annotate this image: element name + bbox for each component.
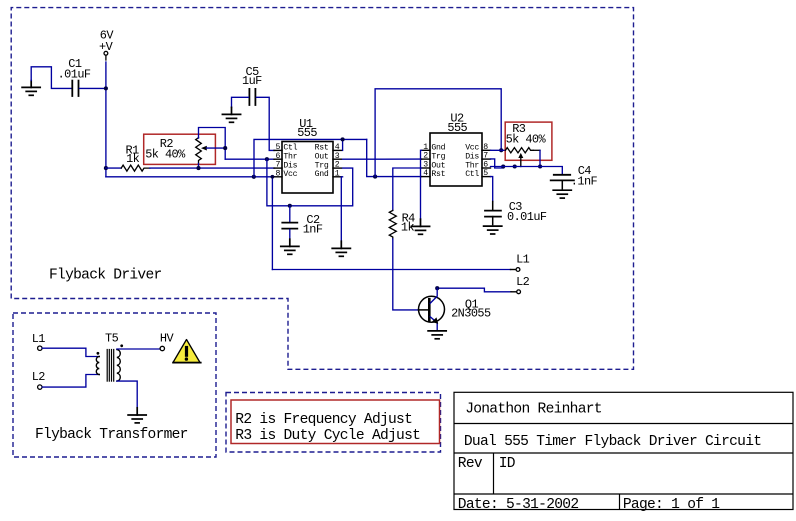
wire: L1 output line xyxy=(272,269,510,271)
transistor Q1 2N3055 xyxy=(419,288,492,329)
title block frame xyxy=(454,392,793,509)
junction Q1 collector / L2 xyxy=(435,286,439,290)
svg-text:1: 1 xyxy=(423,143,428,152)
wire: thr line to U1 pin6 xyxy=(225,158,274,160)
red highlight box around R3 xyxy=(505,122,552,160)
wire: C5 right plate down to U1 pin5 xyxy=(256,97,274,150)
wire: R3 wiper down to thr line xyxy=(520,158,522,167)
svg-text:ID: ID xyxy=(499,456,516,472)
junction U2 pin8 vcc xyxy=(499,148,503,152)
svg-text:Flyback Driver: Flyback Driver xyxy=(49,268,162,284)
ground GND3 (C2) xyxy=(281,239,299,254)
wire: U1 trg-thr tie (under chip) xyxy=(267,159,353,206)
ground GND5 (U2 gnd) xyxy=(411,219,429,234)
MAIN CIRCUIT 3 xyxy=(32,122,598,423)
wire: 6V rail vertical xyxy=(105,62,107,177)
junction R3 right on thr line xyxy=(538,164,542,168)
emitter lead with arrow xyxy=(430,317,437,330)
wire: R2 bottom terminal to dis rail xyxy=(198,164,200,169)
svg-text:Ctl: Ctl xyxy=(465,169,479,179)
svg-text:1uF: 1uF xyxy=(242,74,262,88)
wire: R2 wiper to junction xyxy=(207,147,226,149)
wire: R2 top terminal loop to wiper junction xyxy=(199,128,226,160)
svg-text:Vcc: Vcc xyxy=(283,170,297,179)
wire: C5 left plate to ground xyxy=(232,97,249,107)
node L2 terminal xyxy=(511,275,530,294)
capacitor C1 xyxy=(58,57,91,96)
svg-text:.1nF: .1nF xyxy=(571,175,598,189)
wire: L1 to primary top xyxy=(42,348,99,356)
junction vcc riser on rst line xyxy=(373,175,377,179)
ground GND7 (C3) xyxy=(484,226,502,234)
warning triangle xyxy=(173,340,201,363)
wire: U2 pin3 Out to R4 top xyxy=(393,168,422,210)
svg-text:5: 5 xyxy=(483,169,488,178)
op-amp U1 555 timer xyxy=(274,117,342,193)
red highlight box around R2 xyxy=(144,134,216,164)
svg-text:4: 4 xyxy=(335,143,340,152)
wire: ground to C1 left plate xyxy=(31,67,71,89)
+V 6V supply terminal xyxy=(99,28,114,60)
junction R3 wiper on thr line xyxy=(513,164,517,168)
primary winding xyxy=(96,357,99,375)
svg-text:Flyback Transformer: Flyback Transformer xyxy=(35,427,188,443)
capacitor C2 1nF xyxy=(282,213,323,236)
junction R2 bottom on dis rail xyxy=(196,166,200,170)
junction vcc rail / L1 feed xyxy=(271,175,275,179)
wire: R3 right terminal down to thr line xyxy=(539,150,541,166)
svg-text:Jonathon Reinhart: Jonathon Reinhart xyxy=(465,402,602,418)
wire: U2 pin5 Ctl down to C3 xyxy=(491,177,493,202)
svg-text:Rst: Rst xyxy=(315,144,329,153)
wire: C2 riser xyxy=(289,206,291,222)
wire: U2 pin8 to R3 left xyxy=(491,149,506,151)
svg-text:8: 8 xyxy=(276,169,281,178)
svg-text:Out: Out xyxy=(315,153,329,162)
secondary winding xyxy=(117,350,120,382)
secondary phase dot xyxy=(120,344,123,347)
note dashed box xyxy=(226,393,441,453)
wire: U1 pin3 Out to U2 pin2 Trg xyxy=(343,158,422,160)
primary phase dot xyxy=(97,352,100,355)
junction dis on thr line xyxy=(501,164,505,168)
wire: U2 pin1 Gnd down to ground xyxy=(421,150,422,219)
svg-text:1k: 1k xyxy=(126,152,140,166)
core lines xyxy=(107,350,114,382)
svg-text:Dual 555 Timer Flyback Driver: Dual 555 Timer Flyback Driver Circuit xyxy=(464,434,761,450)
capacitor C3 0.01uF xyxy=(485,200,547,225)
potentiometer R3 5k 40% xyxy=(505,122,546,158)
svg-text:Vcc: Vcc xyxy=(465,144,479,153)
svg-text:1: 1 xyxy=(335,169,340,178)
wire: U1 pin1 Gnd to ground xyxy=(341,177,342,241)
svg-text:R2 is Frequency Adjust: R2 is Frequency Adjust xyxy=(235,412,412,428)
wire: rst tie down to U2 rst line xyxy=(367,139,422,176)
junction C2 tap on tie wire xyxy=(288,204,292,208)
wire: vcc rail feed to L1 line xyxy=(271,177,273,270)
potentiometer R2 5k 40% xyxy=(145,137,207,164)
wire: U2 pin6 Thr line to C4 xyxy=(491,167,563,174)
svg-text:Page: 1 of 1: Page: 1 of 1 xyxy=(623,497,720,513)
svg-text:7: 7 xyxy=(483,152,488,161)
svg-text:Gnd: Gnd xyxy=(431,143,445,153)
wire: L2 line from Q1 collector xyxy=(437,288,511,292)
wire: R4 bottom down to Q1 base xyxy=(393,239,419,310)
wire: secondary top to HV xyxy=(117,348,160,350)
wire: C1 right plate to 6V rail xyxy=(80,87,106,89)
svg-text:HV: HV xyxy=(160,332,175,346)
svg-text:2: 2 xyxy=(423,152,428,161)
svg-text:6: 6 xyxy=(276,152,281,161)
svg-text:1nF: 1nF xyxy=(303,222,323,236)
op-amp U2 555 timer xyxy=(422,112,491,187)
svg-text:Trg: Trg xyxy=(431,152,445,161)
capacitor C5 xyxy=(242,65,262,105)
junction thr line / trg tie xyxy=(265,157,269,161)
wire: L2 to primary bottom xyxy=(42,375,99,388)
note red box xyxy=(231,400,440,444)
svg-text:1k: 1k xyxy=(401,221,415,235)
junction C1/6V rail xyxy=(104,86,108,90)
junction rst tie at U1 pin4 xyxy=(341,137,345,141)
ground GND2 (C5) xyxy=(222,107,240,122)
svg-text:5: 5 xyxy=(276,143,281,152)
svg-text:555: 555 xyxy=(297,126,317,140)
svg-text:Date: 5-31-2002: Date: 5-31-2002 xyxy=(458,497,579,513)
svg-text:Dis: Dis xyxy=(283,160,297,170)
wire: U2 pin7 Dis jog down to thr line xyxy=(491,159,504,168)
junction R2 wiper xyxy=(223,146,227,150)
wire: dis rail middle segment to U1 pin7 xyxy=(150,167,275,169)
MAIN CIRCUIT xyxy=(22,28,341,193)
flyback transformer dashed boundary box xyxy=(13,313,216,457)
wire: rst tie horizontal + drop to vcc rail xyxy=(254,139,367,176)
node L1 (transformer input) xyxy=(32,332,46,350)
wire: U1 pin4 Rst riser to Vcc tie xyxy=(342,139,344,150)
svg-text:L2: L2 xyxy=(32,370,46,384)
svg-text:L1: L1 xyxy=(516,253,530,267)
wire: vcc top loop to U2 pin8 xyxy=(375,89,501,177)
ground GND4 (U1 gnd) xyxy=(332,241,350,256)
svg-text:7: 7 xyxy=(276,161,281,170)
svg-text:0.01uF: 0.01uF xyxy=(507,210,547,224)
svg-text:.01uF: .01uF xyxy=(58,68,91,82)
svg-text:Ctl: Ctl xyxy=(283,143,297,153)
MAIN CIRCUIT 2 xyxy=(254,89,530,310)
ground GND6 (C4) xyxy=(553,190,571,198)
junction 6V rail / R1 rail xyxy=(104,166,108,170)
svg-text:L1: L1 xyxy=(32,332,46,346)
ground GND9 (secondary) xyxy=(128,408,146,423)
capacitor C4 .1nF xyxy=(551,164,598,189)
node HV terminal xyxy=(160,332,175,351)
svg-text:R3 is Duty Cycle Adjust: R3 is Duty Cycle Adjust xyxy=(235,428,420,444)
svg-text:8: 8 xyxy=(483,143,488,152)
junction vcc rail / rst riser xyxy=(252,175,256,179)
svg-text:L2: L2 xyxy=(516,275,530,289)
node L1 terminal xyxy=(511,253,530,272)
wire: vcc rail to U1 pin8 xyxy=(106,176,275,178)
svg-text:2N3055: 2N3055 xyxy=(451,307,491,321)
transformer T5 xyxy=(96,332,123,381)
svg-text:Rst: Rst xyxy=(431,170,445,179)
svg-text:5k 40%: 5k 40% xyxy=(145,147,186,161)
resistor R4 1k xyxy=(389,210,415,239)
svg-text:4: 4 xyxy=(423,169,428,178)
flyback driver dashed boundary box xyxy=(11,8,633,370)
svg-text:5k 40%: 5k 40% xyxy=(506,132,547,146)
svg-text:Thr: Thr xyxy=(283,152,297,162)
svg-text:Trg: Trg xyxy=(315,161,329,170)
svg-text:Thr: Thr xyxy=(465,160,479,170)
svg-text:Rev: Rev xyxy=(458,456,483,472)
wire: dis rail left segment xyxy=(106,167,121,169)
svg-text:3: 3 xyxy=(335,152,340,161)
svg-text:Dis: Dis xyxy=(465,151,479,161)
ground GND1 (C1 left) xyxy=(22,81,40,96)
wire: secondary bottom to ground xyxy=(117,381,137,408)
wire: C2 to ground xyxy=(289,230,291,239)
node L2 (transformer input) xyxy=(32,370,46,389)
svg-text:T5: T5 xyxy=(105,332,119,346)
svg-text:Gnd: Gnd xyxy=(315,169,329,179)
svg-text:2: 2 xyxy=(335,161,340,170)
resistor R1 1k xyxy=(121,144,150,172)
ground GND8 (Q1 emitter) xyxy=(428,331,446,339)
collector lead xyxy=(430,288,437,303)
